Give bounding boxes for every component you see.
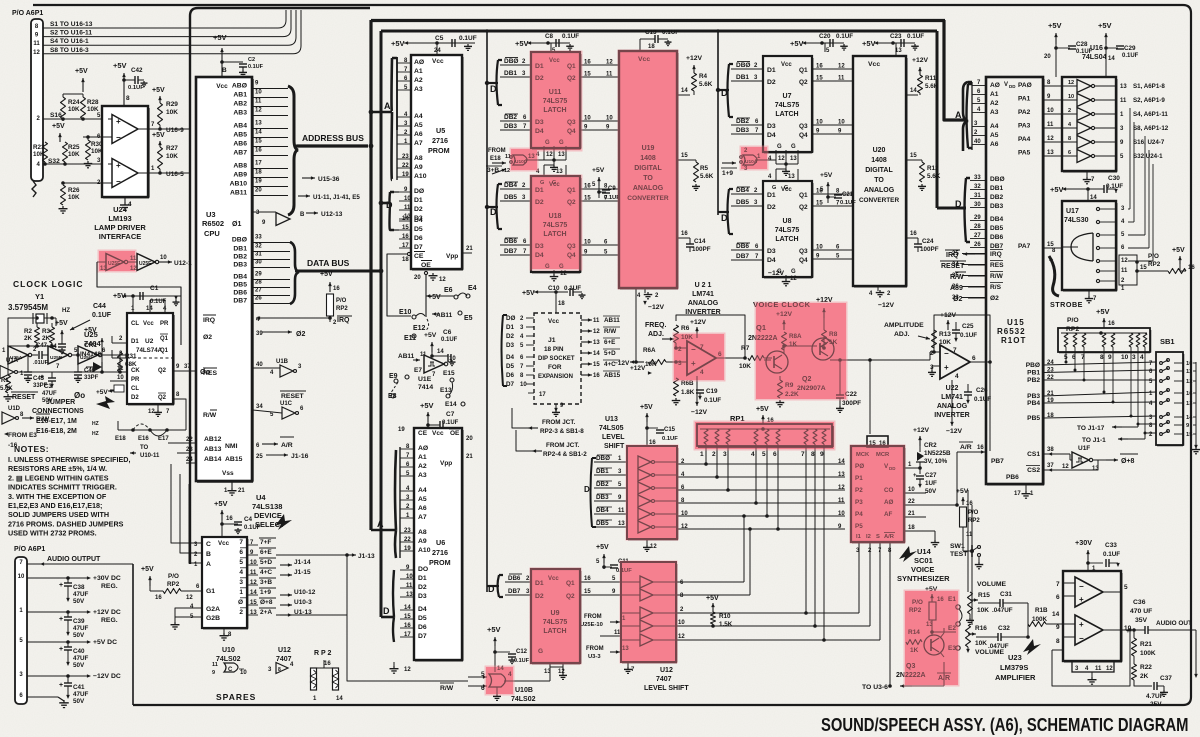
capacitor C24 100PF	[917, 238, 919, 244]
svg-text:11: 11	[1095, 666, 1102, 672]
svg-text:13: 13	[593, 340, 600, 346]
address bus top feed	[371, 19, 945, 22]
svg-text:+5V: +5V	[420, 401, 434, 410]
svg-text:10K: 10K	[977, 607, 989, 614]
svg-text:ABØ: ABØ	[232, 83, 247, 90]
svg-text:RESISTORS ARE ±5%, 1/4 W.: RESISTORS ARE ±5%, 1/4 W.	[8, 464, 107, 473]
svg-text:10K: 10K	[68, 194, 80, 201]
address bus bracket	[288, 86, 298, 215]
svg-text:10: 10	[816, 245, 823, 251]
svg-text:+5V: +5V	[1048, 21, 1062, 30]
svg-text:100PF: 100PF	[920, 246, 939, 253]
svg-text:+5V: +5V	[522, 290, 535, 297]
capacitor C42	[122, 78, 126, 82]
svg-text:20: 20	[1044, 54, 1051, 60]
svg-text:DB7: DB7	[508, 588, 521, 595]
svg-text:R10: R10	[719, 613, 731, 620]
svg-text:S2, A6P1-9: S2, A6P1-9	[1133, 97, 1165, 104]
svg-text:PROM: PROM	[428, 146, 450, 155]
svg-text:+5V: +5V	[596, 544, 609, 551]
svg-text:D: D	[584, 485, 590, 494]
svg-text:D2: D2	[414, 206, 423, 213]
svg-text:CS2: CS2	[1027, 467, 1040, 474]
svg-text:17: 17	[1014, 491, 1021, 497]
J1 feed wires	[512, 408, 528, 428]
svg-text:+12V DC: +12V DC	[93, 609, 121, 616]
svg-text:+5V: +5V	[75, 68, 88, 75]
resistor R8 1K	[822, 330, 827, 348]
svg-text:2. ▤ LEGEND WITHIN GATES: 2. ▤ LEGEND WITHIN GATES	[8, 473, 109, 482]
svg-text:AUDIO OUTPUT: AUDIO OUTPUT	[47, 556, 101, 563]
svg-text:24: 24	[434, 48, 441, 54]
U22 feedback	[934, 315, 990, 362]
svg-text:R7: R7	[741, 345, 750, 352]
op-amp U24B	[112, 159, 138, 188]
svg-text:2: 2	[1068, 108, 1071, 114]
svg-text:+5V: +5V	[84, 327, 97, 334]
svg-text:U2: U2	[145, 338, 154, 345]
svg-text:+5V: +5V	[487, 625, 501, 634]
svg-text:PBØ: PBØ	[1026, 362, 1040, 369]
svg-text:Q3: Q3	[799, 248, 808, 255]
svg-text:DBØ: DBØ	[736, 62, 750, 69]
svg-text:DØ: DØ	[414, 188, 424, 195]
svg-text:16: 16	[1186, 391, 1193, 397]
svg-text:17: 17	[539, 392, 546, 398]
svg-text:ANALOG: ANALOG	[864, 187, 895, 194]
svg-text:D4: D4	[767, 132, 776, 139]
svg-text:+5V: +5V	[862, 39, 876, 48]
capacitor C5	[451, 39, 453, 47]
svg-text:A5: A5	[418, 496, 427, 503]
svg-text:5.6K: 5.6K	[0, 386, 13, 392]
svg-text:8: 8	[278, 667, 281, 673]
svg-text:0.1UF: 0.1UF	[459, 35, 477, 42]
svg-text:Q2: Q2	[799, 204, 808, 211]
svg-text:DB2: DB2	[596, 481, 609, 488]
svg-text:10: 10	[1186, 361, 1192, 367]
IC U6 2716 PROM	[414, 428, 462, 660]
svg-text:3+B: 3+B	[260, 579, 272, 586]
svg-text:AB11: AB11	[604, 317, 620, 324]
svg-text:Q3: Q3	[799, 123, 808, 130]
svg-text:AB11: AB11	[230, 190, 247, 197]
svg-text:0.1UF: 0.1UF	[128, 85, 144, 91]
svg-text:DB4: DB4	[596, 507, 609, 514]
svg-text:J1-15: J1-15	[294, 569, 311, 576]
resistor R30 10K	[86, 140, 91, 160]
svg-text:+5V: +5V	[1172, 247, 1185, 254]
svg-text:DATA BUS: DATA BUS	[307, 258, 350, 268]
svg-text:+5V: +5V	[515, 39, 529, 48]
resistor R22 2K	[1133, 656, 1135, 664]
svg-text:AB15: AB15	[225, 456, 243, 463]
svg-text:0.1UF: 0.1UF	[907, 33, 924, 40]
IC U19 1408 DAC	[619, 51, 677, 288]
U17 pin vertical wires	[1128, 208, 1130, 210]
svg-text:+5V: +5V	[113, 61, 127, 70]
svg-text:25: 25	[952, 251, 959, 257]
svg-text:10: 10	[520, 382, 527, 388]
outer border top	[33, 4, 1183, 6]
svg-text:CE: CE	[414, 253, 424, 260]
svg-text:TO: TO	[874, 177, 884, 184]
svg-text:10: 10	[838, 511, 845, 517]
svg-text:Q1: Q1	[799, 67, 808, 74]
svg-text:STROBE: STROBE	[1050, 300, 1083, 309]
svg-text:AØ: AØ	[414, 59, 424, 66]
IC U17 74LS30	[1062, 201, 1116, 290]
svg-text:P/O: P/O	[336, 298, 347, 304]
svg-text:Vcc: Vcc	[216, 83, 228, 90]
svg-text:5: 5	[1124, 584, 1128, 591]
resistor R13 10K	[932, 330, 937, 348]
svg-text:U12: U12	[660, 667, 673, 674]
IC U15 R6532 RIOT	[986, 77, 1043, 484]
svg-text:D4: D4	[414, 217, 423, 224]
svg-text:+: +	[59, 646, 63, 653]
svg-text:22: 22	[186, 437, 193, 443]
svg-text:100K: 100K	[1140, 650, 1156, 657]
svg-text:D6: D6	[418, 624, 427, 631]
svg-text:35V: 35V	[1135, 617, 1148, 624]
svg-text:+5V: +5V	[213, 33, 227, 42]
svg-text:U1E: U1E	[418, 376, 432, 383]
U17 nand gate	[1071, 233, 1093, 261]
svg-text:DB6: DB6	[508, 575, 521, 582]
svg-text:15: 15	[255, 139, 262, 145]
svg-text:R1B: R1B	[1035, 607, 1048, 614]
svg-text:3: 3	[723, 451, 727, 458]
svg-text:7: 7	[1056, 581, 1060, 588]
svg-text:RP2: RP2	[968, 518, 980, 524]
svg-text:2+A: 2+A	[260, 609, 272, 616]
svg-text:R15: R15	[978, 592, 990, 599]
svg-text:17: 17	[255, 161, 262, 167]
svg-text:74LS75: 74LS75	[775, 227, 800, 234]
svg-text:35: 35	[952, 273, 959, 279]
svg-text:−: −	[116, 177, 121, 186]
svg-text:G: G	[777, 144, 782, 150]
svg-text:15: 15	[584, 589, 591, 595]
address bus line	[297, 144, 368, 147]
svg-text:20: 20	[414, 275, 421, 281]
svg-text:+12V: +12V	[912, 57, 929, 64]
svg-text:U10: U10	[222, 647, 235, 654]
U8 output wires	[813, 193, 852, 195]
svg-text:S8, A6P1-12: S8, A6P1-12	[1133, 125, 1169, 132]
svg-text:+: +	[116, 161, 121, 170]
svg-text:R1: R1	[1, 378, 9, 384]
svg-text:10K: 10K	[166, 153, 178, 160]
svg-text:+12V: +12V	[690, 319, 707, 326]
svg-text:1: 1	[239, 589, 243, 596]
wire bundle U13 to U14	[678, 463, 845, 465]
capacitor C2	[220, 60, 224, 64]
svg-text:12: 12	[33, 50, 40, 56]
svg-text:OE: OE	[450, 430, 460, 437]
svg-text:5: 5	[762, 451, 766, 458]
resistor R26 10K	[61, 185, 66, 205]
svg-text:DB3: DB3	[596, 494, 609, 501]
svg-text:10: 10	[255, 90, 262, 96]
svg-text:11: 11	[33, 41, 40, 47]
svg-text:A5: A5	[990, 132, 999, 139]
svg-text:R5: R5	[700, 165, 709, 172]
frame left vertical	[190, 8, 370, 564]
svg-text:16: 16	[593, 373, 600, 379]
svg-text:DB1: DB1	[990, 185, 1004, 192]
svg-text:21: 21	[466, 454, 473, 460]
svg-text:D4: D4	[506, 354, 515, 361]
svg-text:E16-E18, 2M: E16-E18, 2M	[36, 428, 77, 435]
svg-text:0.1UF: 0.1UF	[662, 29, 679, 36]
svg-text:AUDIO OUT: AUDIO OUT	[1156, 620, 1192, 627]
svg-text:E5: E5	[464, 315, 473, 322]
svg-text:CR1: CR1	[84, 342, 97, 349]
bus A bracket U15	[967, 84, 973, 148]
svg-text:PB3: PB3	[1027, 393, 1040, 400]
svg-text:2K: 2K	[42, 335, 51, 342]
highlight RP1 resistor pack	[695, 422, 834, 449]
svg-text:U10-3: U10-3	[294, 599, 312, 606]
svg-text:U24: U24	[113, 205, 128, 214]
svg-text:7: 7	[801, 451, 805, 458]
svg-text:33PF: 33PF	[84, 375, 99, 381]
+30V DC line	[27, 577, 90, 579]
svg-text:12: 12	[606, 60, 613, 66]
svg-text:Ø: Ø	[238, 599, 243, 606]
svg-text:A10: A10	[418, 547, 431, 554]
svg-text:FROM E3: FROM E3	[8, 432, 37, 439]
svg-text:CL: CL	[131, 321, 139, 327]
svg-text:74LS30: 74LS30	[1064, 217, 1089, 224]
svg-text:D2: D2	[418, 584, 427, 591]
svg-text:50V: 50V	[73, 632, 85, 639]
resistor pack RP1	[697, 424, 832, 446]
U23 bottom pins	[1072, 661, 1114, 672]
svg-text:G2A: G2A	[206, 606, 220, 613]
audio output arrow	[40, 563, 60, 565]
inverter U25B	[42, 354, 48, 356]
svg-text:C42: C42	[131, 67, 143, 74]
svg-text:DBØ: DBØ	[232, 237, 247, 244]
+5V DC line	[27, 641, 90, 643]
svg-text:AB14: AB14	[204, 456, 222, 463]
address bus right drop	[944, 20, 966, 120]
svg-text:DØ: DØ	[506, 315, 516, 322]
svg-text:DB7: DB7	[504, 248, 517, 255]
svg-text:0.1UF: 0.1UF	[248, 64, 264, 70]
svg-text:−12V DC: −12V DC	[93, 673, 121, 680]
svg-text:R21: R21	[1140, 641, 1152, 648]
svg-text:R29: R29	[166, 101, 178, 108]
pink highlight overlay tint	[98, 50, 960, 696]
svg-text:31: 31	[255, 252, 262, 258]
svg-text:8: 8	[126, 95, 130, 102]
svg-text:U12-1: U12-1	[174, 260, 192, 267]
svg-text:4.7UF: 4.7UF	[1146, 693, 1164, 700]
svg-text:12: 12	[838, 485, 845, 491]
svg-text:A8: A8	[418, 529, 427, 536]
svg-text:74LS04: 74LS04	[1082, 54, 1107, 61]
svg-text:Vcc: Vcc	[548, 318, 560, 325]
wire volume feeds	[967, 490, 969, 592]
svg-text:50V: 50V	[73, 662, 85, 669]
svg-text:IRQ: IRQ	[337, 317, 350, 324]
svg-text:12: 12	[1106, 666, 1113, 672]
svg-text:21: 21	[238, 488, 245, 494]
svg-text:2: 2	[239, 609, 243, 616]
svg-text:R26: R26	[68, 187, 80, 194]
svg-text:IN4148: IN4148	[80, 351, 101, 358]
wire SB1 bottom rows	[1138, 423, 1156, 425]
svg-text:SOLID JUMPERS USED WITH: SOLID JUMPERS USED WITH	[8, 510, 109, 519]
svg-text:J1-13: J1-13	[358, 553, 375, 560]
svg-text:D3: D3	[506, 342, 515, 349]
svg-text:AB5: AB5	[233, 132, 247, 139]
svg-text:U17: U17	[1066, 208, 1079, 215]
svg-text:SYNTHESIZER: SYNTHESIZER	[897, 574, 950, 583]
svg-text:A6: A6	[414, 131, 423, 138]
svg-text:+5V: +5V	[820, 172, 833, 179]
U23B feedback loop	[1052, 649, 1063, 651]
svg-text:D5: D5	[418, 615, 427, 622]
svg-text:+5V: +5V	[1050, 185, 1064, 194]
svg-text:DB4: DB4	[233, 274, 247, 281]
svg-text:DB5: DB5	[504, 194, 517, 201]
svg-text:.01UF: .01UF	[33, 360, 49, 366]
svg-text:10: 10	[584, 240, 591, 246]
svg-text:34: 34	[952, 262, 959, 268]
svg-text:4+C: 4+C	[604, 361, 616, 368]
svg-text:C6: C6	[443, 329, 452, 336]
svg-text:U20: U20	[873, 147, 886, 154]
capacitor C14 100PF	[689, 238, 691, 244]
U12 buffer triangles	[640, 576, 653, 588]
svg-text:PA1: PA1	[1018, 96, 1031, 103]
svg-text:47UF: 47UF	[73, 655, 89, 662]
data bus top feed	[381, 30, 937, 33]
svg-text:19: 19	[398, 427, 405, 433]
svg-text:Y1: Y1	[35, 292, 44, 301]
svg-text:16: 16	[155, 595, 162, 601]
svg-text:R27: R27	[166, 145, 178, 152]
svg-text:10: 10	[606, 116, 613, 122]
svg-text:PB1: PB1	[1027, 370, 1040, 377]
svg-text:0.1UF: 0.1UF	[836, 33, 853, 40]
svg-text:PR: PR	[131, 377, 140, 383]
svg-text:R/W: R/W	[604, 328, 616, 335]
svg-text:D2: D2	[767, 79, 776, 86]
svg-text:0.1UF: 0.1UF	[662, 436, 678, 442]
svg-text:7: 7	[953, 347, 957, 354]
svg-text:U10B: U10B	[515, 687, 533, 694]
connector J1 dashed box	[534, 313, 581, 404]
IC U9 74LS75 latch	[531, 569, 580, 663]
svg-text:E6: E6	[444, 287, 453, 294]
svg-text:A5: A5	[414, 122, 423, 129]
svg-text:A10: A10	[414, 173, 427, 180]
svg-text:A3: A3	[990, 109, 999, 116]
svg-text:4+C: 4+C	[260, 569, 272, 576]
svg-text:−12V: −12V	[878, 302, 895, 309]
svg-text:11: 11	[255, 99, 262, 105]
wire U12 pin6 8 join P bus	[677, 581, 744, 583]
highlight voice clock Q1 Q2	[756, 303, 846, 399]
svg-text:+12V: +12V	[686, 55, 703, 62]
svg-text:B: B	[222, 67, 227, 74]
svg-text:SHIFT: SHIFT	[604, 443, 625, 450]
svg-text:C19: C19	[706, 388, 718, 395]
resistor R1 5.6K	[6, 375, 11, 393]
svg-text:6: 6	[1056, 594, 1060, 601]
svg-text:C33: C33	[1105, 542, 1117, 549]
svg-text:.047UF: .047UF	[992, 607, 1013, 614]
svg-text:OE: OE	[421, 262, 431, 269]
svg-text:16: 16	[910, 231, 917, 237]
svg-text:Øo: Øo	[74, 391, 85, 400]
svg-text:DB1: DB1	[504, 70, 517, 77]
U7 output wires	[813, 68, 852, 70]
U22 out wire	[970, 361, 990, 363]
IC U20 1408 DAC	[853, 56, 906, 286]
svg-text:DB6: DB6	[504, 238, 517, 245]
svg-text:TEST: TEST	[950, 551, 968, 558]
svg-text:U12: U12	[278, 647, 291, 654]
U15-36 arrows	[302, 177, 315, 179]
svg-text:DBØ: DBØ	[504, 58, 518, 65]
svg-text:R4: R4	[699, 73, 708, 80]
svg-text:3V, 10%: 3V, 10%	[924, 458, 948, 465]
wire 2 row	[63, 182, 108, 184]
svg-text:A3: A3	[414, 86, 423, 93]
svg-text:10: 10	[18, 574, 25, 580]
svg-text:−12V: −12V	[648, 304, 665, 311]
svg-text:R31: R31	[125, 353, 137, 360]
svg-text:AB1: AB1	[233, 92, 247, 99]
svg-text:DB1: DB1	[736, 74, 749, 81]
svg-text:0.1UF: 0.1UF	[960, 332, 977, 339]
svg-text:A1: A1	[990, 91, 999, 98]
svg-text:14: 14	[1186, 415, 1193, 421]
resistor R28 10K	[81, 97, 86, 119]
svg-text:R11: R11	[925, 75, 937, 82]
svg-text:Q2: Q2	[158, 368, 167, 374]
bus A vertical	[369, 20, 372, 530]
highlight U18 latch	[531, 176, 581, 269]
svg-text:8: 8	[1100, 354, 1104, 361]
svg-text:50V: 50V	[42, 398, 53, 404]
svg-text:R3: R3	[42, 328, 51, 335]
svg-text:DBØ: DBØ	[990, 176, 1005, 183]
svg-text:24: 24	[186, 457, 193, 463]
svg-text:12: 12	[186, 595, 193, 601]
svg-text:+30V: +30V	[1075, 538, 1092, 547]
svg-text:10: 10	[584, 116, 591, 122]
svg-text:CL: CL	[131, 386, 139, 392]
svg-text:IRQ: IRQ	[203, 317, 215, 324]
svg-text:47UF: 47UF	[73, 691, 89, 698]
svg-text:3: 3	[1132, 354, 1136, 361]
svg-text:+: +	[944, 363, 949, 372]
RP2 tap verticals	[1065, 347, 1067, 362]
svg-text:RESET: RESET	[12, 394, 36, 401]
data bus bracket	[290, 242, 299, 304]
svg-text:16: 16	[584, 184, 591, 190]
svg-text:Ø1: Ø1	[232, 221, 241, 228]
svg-text:E18: E18	[490, 156, 501, 162]
